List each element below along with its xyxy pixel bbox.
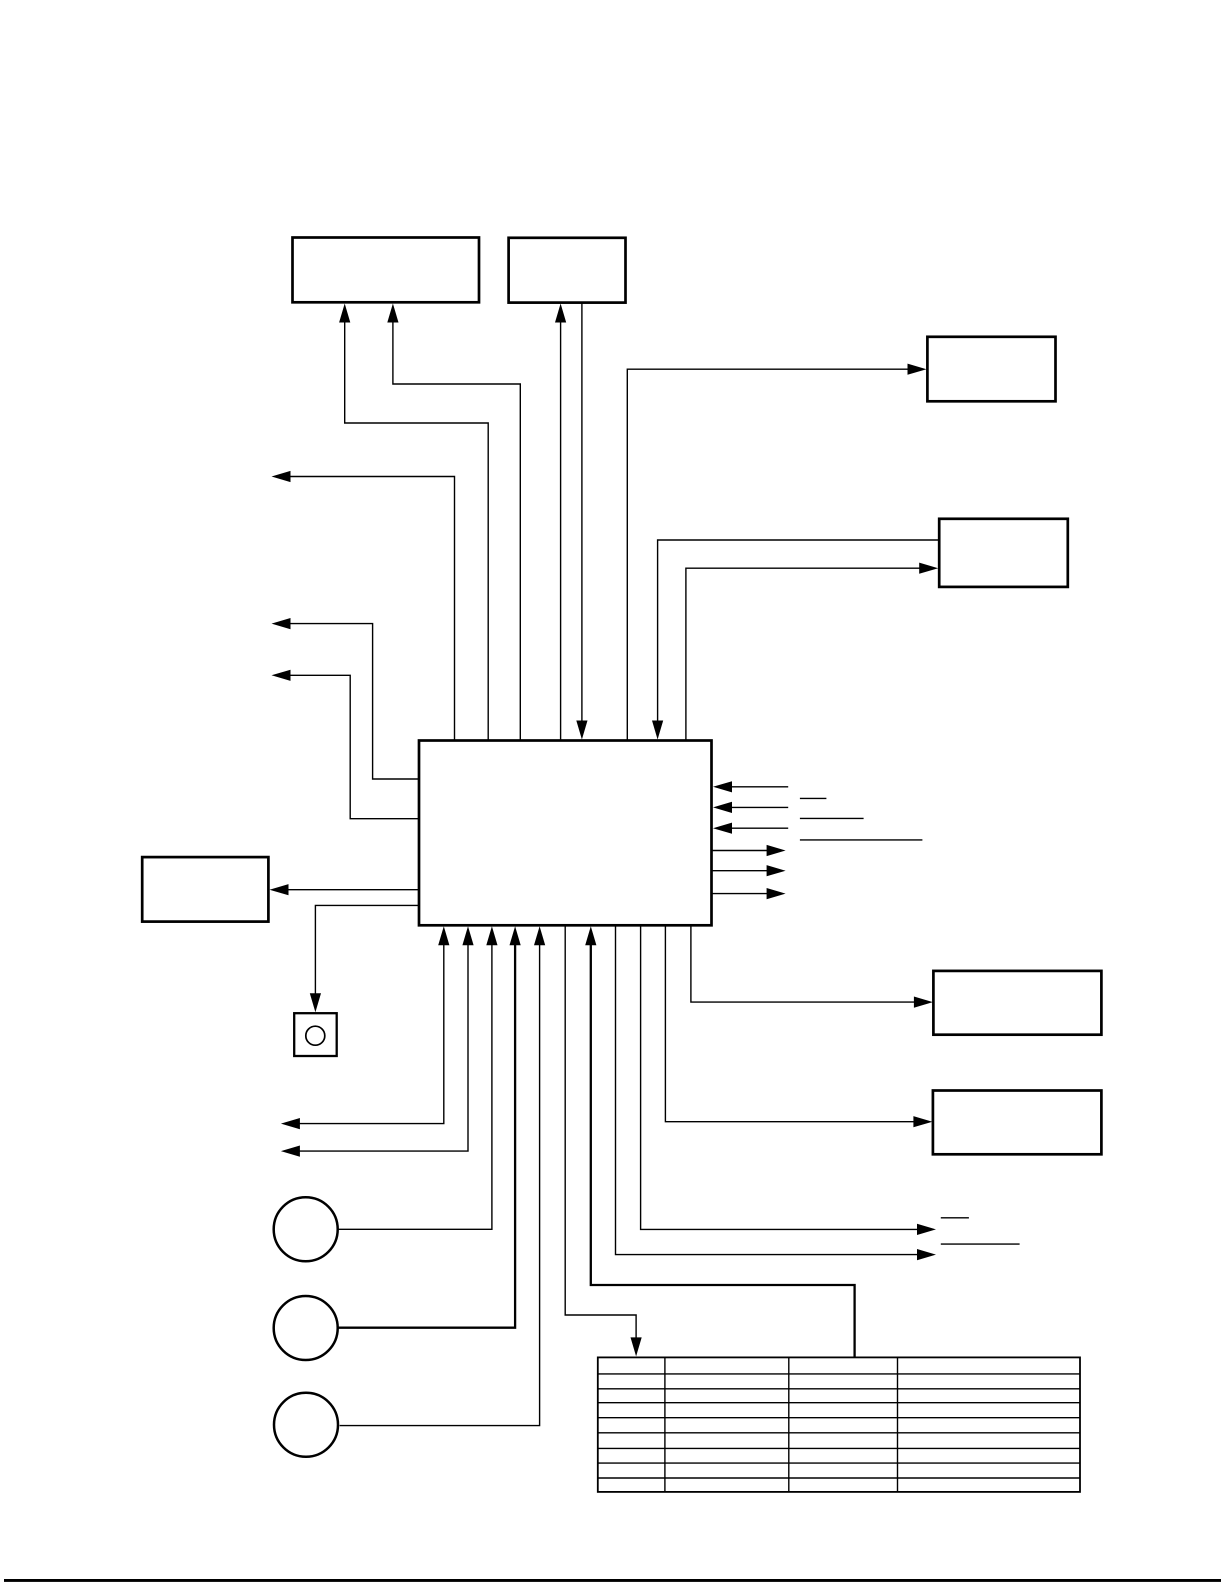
box RB3 (lower right upper) — [933, 971, 1101, 1035]
circle J2 — [274, 1296, 338, 1360]
wire W24f floating line — [941, 1217, 969, 1219]
box B1 (top left) — [293, 238, 480, 303]
wire W15b right out-arrow 2 — [712, 865, 786, 876]
wire W11 central to LB — [270, 884, 420, 895]
wire W16 bottom v1 to left arrow — [281, 926, 450, 1129]
wire W15a right out-arrow 1 — [712, 845, 786, 856]
wire W6 RB2 to central top — [652, 540, 939, 740]
speaker box SPK — [294, 1013, 337, 1056]
wire W19 bottom v4 (thick) to circle J2 — [338, 926, 521, 1327]
box RB1 (upper right) — [927, 337, 1055, 402]
wire W7 central top to RB2 — [686, 563, 938, 740]
wire W3 central top to B2 — [555, 304, 566, 741]
wire W18 bottom v3 to circle J1 — [338, 926, 498, 1229]
wire W14a floating line 1 — [800, 797, 827, 799]
table — [598, 1357, 1080, 1492]
wire W13c right in-arrow 3 — [713, 823, 788, 834]
wire W25 bottom v10 to RB4 — [665, 926, 932, 1128]
wire W1 central top to B1 (left) — [339, 304, 488, 741]
wire W2 central top to B1 (right) — [387, 304, 520, 741]
box RB4 (lower right lower) — [933, 1091, 1102, 1155]
wire W23f floating line — [941, 1243, 1020, 1245]
wire W26 bottom v11 to RB3 — [691, 926, 933, 1008]
wire W22 bottom v7 (thick) to table — [585, 926, 854, 1357]
box RB2 (mid right) — [939, 519, 1068, 587]
wire W13b right in-arrow 2 — [713, 802, 788, 813]
wire W13a right in-arrow 1 — [713, 781, 788, 792]
box B2 (top middle) — [509, 238, 626, 303]
wire W5 central top to RB1 — [627, 364, 926, 740]
wire W24 bottom v9 to right arrow — [641, 926, 936, 1236]
central box U1 — [419, 741, 712, 926]
wire W14b floating line 2 — [800, 817, 864, 819]
circle J1 — [274, 1197, 338, 1261]
wire W12 central to SPK — [310, 905, 419, 1012]
wire W15c right out-arrow 3 — [712, 888, 786, 899]
wire W4 B2 down to central top — [576, 303, 587, 740]
circle J3 — [274, 1393, 338, 1457]
wire W21 bottom v6 to table (arrow) — [565, 926, 642, 1357]
wire W14c floating line 3 — [800, 839, 923, 841]
wire W17 bottom v2 to left arrow — [281, 926, 474, 1156]
wire W9 left arrow into central left (upper) — [272, 618, 420, 779]
box LB (left of central) — [142, 857, 268, 922]
bottom rule — [4, 1579, 1221, 1582]
wire W10 left arrow into central left (lower) — [272, 670, 420, 819]
wire W20 bottom v5 to circle J3 — [340, 926, 546, 1425]
wire W8 central top to left arrow — [272, 471, 455, 740]
wire W23 bottom v8 to right arrow — [616, 926, 937, 1261]
